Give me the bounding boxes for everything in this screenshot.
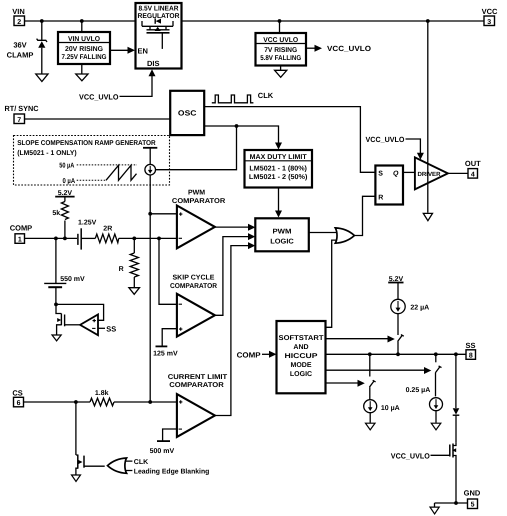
svg-text:10 µA: 10 µA	[381, 405, 400, 412]
svg-text:CLK: CLK	[258, 91, 274, 100]
node junction VCC-UVLO-top	[278, 19, 282, 23]
resistor 1.8k	[90, 389, 114, 406]
wire VCC rail into driver	[427, 21, 429, 213]
svg-text:GND: GND	[464, 489, 481, 498]
svg-text:2: 2	[17, 19, 21, 26]
svg-text:VCC_UVLO: VCC_UVLO	[366, 135, 405, 144]
wire latch Q to driver	[403, 171, 415, 173]
block soft start and hiccup mode logic	[277, 321, 326, 393]
current source 10 uA	[364, 400, 400, 423]
wire arrow MAX DUTY LIMIT to PWM LOGIC	[275, 188, 282, 218]
arrowhead into PWM LOGIC input1	[248, 224, 255, 231]
svg-text:8.5V LINEAR: 8.5V LINEAR	[139, 5, 179, 12]
block 8.5V linear regulator U-REG	[136, 3, 182, 69]
svg-text:1.25V: 1.25V	[78, 219, 97, 226]
svg-text:550 mV: 550 mV	[60, 276, 85, 283]
gate OR blanking (mirrored)	[108, 458, 210, 476]
node junction 2R-R	[132, 237, 136, 241]
svg-text:1: 1	[18, 237, 22, 244]
wire SS rail	[326, 353, 467, 355]
svg-text:SOFTSTART: SOFTSTART	[279, 335, 325, 342]
svg-text:2R: 2R	[103, 226, 112, 233]
wire arrow VCC_UVLO to driver	[366, 135, 424, 160]
battery reference 550 mV	[44, 238, 85, 304]
wire to PWM comparator + input	[150, 213, 177, 215]
wire PWM LOGIC output to OR gate	[309, 232, 337, 234]
svg-text:VIN UVLO: VIN UVLO	[68, 36, 101, 43]
svg-text:VIN: VIN	[12, 7, 25, 16]
block OSC	[170, 91, 204, 135]
svg-text:125 mV: 125 mV	[153, 350, 178, 357]
svg-text:S: S	[378, 170, 383, 177]
diode body inside regulator	[155, 18, 161, 23]
pin 8 SS	[465, 341, 475, 360]
svg-text:PWM: PWM	[188, 189, 205, 196]
wire skip cycle output to PWM LOGIC input2	[215, 233, 255, 315]
node junction COMP-skip	[157, 237, 161, 241]
switch 0.25uA discharge	[435, 354, 441, 396]
current source 22 uA	[391, 299, 429, 313]
wire SS feedback label	[98, 324, 116, 333]
wire OSC ramp output	[204, 126, 278, 144]
current source ramp I1	[145, 148, 156, 175]
svg-text:R: R	[119, 266, 124, 273]
wire to SS clamp buffer +	[56, 304, 104, 320]
ground below 10uA	[366, 423, 376, 430]
svg-text:COMPARATOR: COMPARATOR	[170, 283, 217, 290]
gate OR reset	[335, 228, 354, 243]
svg-text:0 µA: 0 µA	[63, 178, 76, 185]
pin 5 GND	[464, 489, 481, 509]
ground below 0.25uA	[431, 423, 441, 430]
node junction SS-10uA	[368, 352, 372, 356]
node junction CS-slope	[148, 400, 152, 404]
svg-text:20V RISING: 20V RISING	[65, 46, 104, 53]
wire arrow COMP into soft start logic	[237, 350, 277, 359]
svg-text:CURRENT LIMIT: CURRENT LIMIT	[168, 374, 228, 381]
pin 3 VCC	[482, 7, 498, 26]
wire hiccup to OR gate bottom input	[326, 240, 337, 327]
ground below VIN UVLO	[76, 74, 88, 81]
svg-text:Leading Edge Blanking: Leading Edge Blanking	[134, 468, 210, 476]
svg-text:8: 8	[469, 353, 473, 360]
pin 6 CS	[12, 389, 23, 408]
reference 500 mV	[150, 429, 177, 455]
pin 2 VIN	[12, 7, 25, 26]
svg-text:COMP: COMP	[237, 350, 261, 359]
svg-text:22 µA: 22 µA	[410, 304, 429, 311]
op-amp SS clamp buffer	[80, 315, 98, 336]
wire arrow VCC_UVLO to DIS	[79, 69, 156, 101]
capacitor offset 1.25V	[78, 219, 97, 249]
wire driver to OUT	[448, 172, 468, 174]
svg-text:DRIVER: DRIVER	[418, 171, 442, 178]
node junction VIN-UVLO	[80, 19, 84, 23]
op-amp current limit comparator	[168, 374, 228, 437]
zener diode 36V clamp	[7, 21, 47, 74]
node junction COMP-550mV	[54, 237, 58, 241]
transistor pass PMOS inside regulator	[142, 21, 173, 49]
ground below 36V clamp	[36, 74, 48, 82]
diode SS discharge	[453, 354, 460, 442]
wire arrow soft start to 0.25uA switch	[326, 367, 432, 374]
node junction CS-blanking	[74, 400, 78, 404]
svg-text:CS: CS	[12, 389, 22, 398]
wire VCC-UVLO to ground	[280, 66, 282, 71]
wire VIN to VCC bus	[25, 20, 485, 22]
svg-text:VCC_UVLO: VCC_UVLO	[79, 92, 119, 101]
pin 7 RT/SYNC	[5, 104, 40, 124]
svg-text:50 µA: 50 µA	[59, 162, 74, 169]
svg-text:CLK: CLK	[134, 459, 148, 466]
svg-text:6: 6	[17, 400, 21, 407]
svg-text:R: R	[378, 195, 383, 202]
wire CLK waveform line	[204, 91, 375, 172]
switch soft start charge	[398, 314, 404, 355]
svg-text:RT/ SYNC: RT/ SYNC	[5, 104, 40, 113]
transistor SS clamp PMOS Q-SS	[56, 304, 80, 334]
svg-text:HICCUP: HICCUP	[285, 353, 318, 360]
svg-text:EN: EN	[138, 46, 148, 55]
wire arrow VIN-UVLO EN	[110, 49, 129, 51]
svg-text:500 mV: 500 mV	[150, 448, 175, 455]
wire GND rail	[435, 502, 468, 504]
node junction SS-0.25uA	[434, 352, 438, 356]
wire OR output to latch R	[355, 196, 376, 235]
wire VIN-UVLO to ground	[81, 64, 83, 74]
node junction slope to PWM+	[148, 212, 152, 216]
op-amp skip cycle comparator	[170, 275, 217, 337]
resistor R	[119, 238, 139, 287]
node junction GND	[454, 501, 458, 505]
svg-text:VCC_UVLO: VCC_UVLO	[391, 451, 430, 460]
block VCC UVLO	[256, 33, 307, 66]
transistor SS pulldown NMOS Q-SS2	[391, 442, 456, 503]
reference 125 mV	[153, 329, 178, 358]
svg-text:5k: 5k	[52, 209, 60, 217]
switch 10uA discharge	[369, 354, 375, 400]
wire arrow soft start to 10uA switch	[326, 380, 365, 387]
block slope compensation ramp generator (dashed)	[14, 136, 170, 186]
svg-text:1.8k: 1.8k	[95, 389, 109, 397]
svg-text:MODE: MODE	[291, 362, 312, 369]
svg-text:OUT: OUT	[465, 159, 481, 168]
block SR latch U-LATCH	[375, 166, 403, 205]
wire RT/SYNC to OSC	[25, 118, 171, 120]
label 0 uA	[63, 178, 107, 185]
node junction SS-charge	[396, 352, 400, 356]
svg-text:36V: 36V	[13, 41, 26, 50]
svg-text:PWM: PWM	[273, 228, 292, 235]
svg-text:5.8V FALLING: 5.8V FALLING	[260, 55, 301, 62]
svg-text:(LM5021 - 1 ONLY): (LM5021 - 1 ONLY)	[17, 149, 76, 157]
wire COMP to skip cycle - input	[159, 238, 177, 304]
block VIN UVLO	[58, 32, 110, 64]
svg-text:LM5021 - 1 (80%): LM5021 - 1 (80%)	[249, 165, 307, 173]
svg-text:SKIP CYCLE: SKIP CYCLE	[173, 275, 215, 282]
node junction VCC-driver	[426, 19, 430, 23]
svg-text:0.25 µA: 0.25 µA	[406, 387, 431, 394]
node junction VIN-clamp	[40, 19, 44, 23]
power rail 5.2V at soft start	[388, 276, 403, 299]
ground below VCC UVLO	[275, 70, 287, 77]
wire arrow soft start to charge switch	[326, 336, 395, 343]
svg-text:4: 4	[471, 171, 475, 178]
ground below blanking NMOS	[72, 475, 81, 482]
svg-text:COMPARATOR: COMPARATOR	[169, 382, 224, 389]
svg-text:VCC UVLO: VCC UVLO	[263, 37, 299, 44]
ground below SS clamp	[52, 335, 61, 341]
svg-text:SS: SS	[465, 341, 475, 350]
wire ramp source to OSC line	[156, 126, 237, 170]
wire arrow into MAX DUTY LIMIT	[275, 143, 282, 150]
wire COMP line	[25, 237, 78, 239]
ground at GND pin	[430, 503, 439, 514]
pin 1 COMP	[10, 224, 33, 244]
power rail 5.2V at 5k	[55, 190, 74, 197]
resistor 2R	[95, 226, 118, 243]
svg-text:7V RISING: 7V RISING	[264, 47, 298, 54]
svg-text:7.25V FALLING: 7.25V FALLING	[62, 54, 107, 61]
sawtooth ramp waveform	[106, 165, 137, 180]
svg-text:OSC: OSC	[178, 109, 197, 118]
svg-text:MAX DUTY LIMIT: MAX DUTY LIMIT	[250, 154, 308, 161]
svg-text:5: 5	[471, 502, 475, 509]
svg-text:3: 3	[487, 19, 491, 26]
node junction 550mV-SS-clamp	[54, 303, 58, 307]
resistor 5k	[52, 197, 68, 239]
transistor leading edge blanking NMOS Q-LEB	[76, 402, 105, 475]
wire CS line	[24, 401, 90, 403]
wire cap to 2R	[81, 237, 95, 239]
wire current limit output to PWM LOGIC input3	[215, 242, 255, 415]
ground below R	[129, 288, 140, 295]
wire VCC to VCC-UVLO box	[279, 21, 281, 33]
block MAX DUTY LIMIT	[245, 150, 313, 188]
svg-text:REGULATOR: REGULATOR	[138, 13, 180, 20]
svg-text:LM5021 - 2 (50%): LM5021 - 2 (50%)	[249, 173, 308, 181]
power rail bar above ramp current source	[143, 147, 157, 149]
svg-text:DIS: DIS	[147, 59, 160, 68]
svg-text:VCC_UVLO: VCC_UVLO	[327, 44, 371, 53]
svg-text:COMPARATOR: COMPARATOR	[172, 198, 225, 205]
wire VIN to VIN-UVLO box	[81, 21, 83, 32]
svg-text:LOGIC: LOGIC	[270, 238, 294, 245]
svg-text:Q: Q	[393, 170, 399, 177]
wire 2R to PWM-	[119, 237, 177, 239]
svg-text:SS: SS	[106, 324, 116, 333]
pin 4 OUT	[465, 159, 481, 179]
block PWM LOGIC	[255, 218, 308, 251]
svg-text:LOGIC: LOGIC	[290, 371, 312, 378]
svg-text:7: 7	[17, 117, 21, 124]
node junction SS-diode	[454, 352, 458, 356]
node junction COMP-5k	[63, 237, 67, 241]
node junction OSC-ramp	[235, 124, 239, 128]
wire PWM comparator output	[215, 226, 250, 228]
wire arrow VCC_UVLO output label	[306, 44, 371, 53]
op-amp PWM comparator	[172, 189, 225, 248]
svg-text:CLAMP: CLAMP	[7, 51, 34, 60]
current source 0.25 uA	[406, 387, 443, 423]
svg-text:SLOPE COMPENSATION RAMP GENERA: SLOPE COMPENSATION RAMP GENERATOR	[17, 140, 156, 147]
label 50 uA	[59, 162, 137, 169]
svg-text:AND: AND	[293, 344, 308, 351]
ground below driver	[423, 213, 432, 220]
wire slope injection vertical	[149, 175, 151, 402]
svg-text:VCC: VCC	[482, 7, 498, 16]
buffer DRIVER U-DRV	[415, 157, 448, 189]
wire 1.8k to current limit +	[114, 401, 177, 403]
svg-text:COMP: COMP	[10, 224, 33, 233]
